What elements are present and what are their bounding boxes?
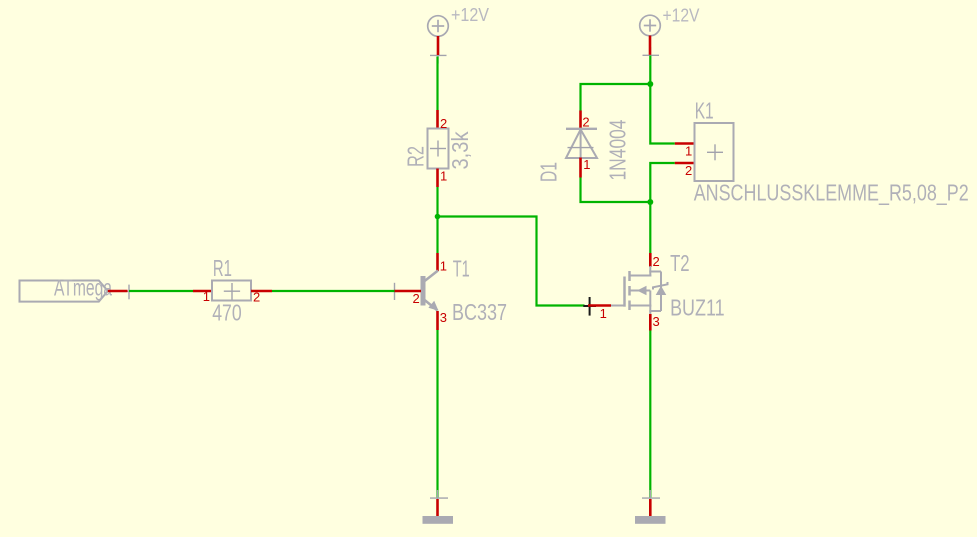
diode D1	[566, 111, 597, 178]
power +12V supply symbol P2	[640, 15, 661, 36]
svg-text:3,3k: 3,3k	[447, 131, 473, 169]
svg-text:+12V: +12V	[451, 5, 489, 25]
wire node to T2 gate	[438, 217, 585, 306]
svg-text:BC337: BC337	[452, 299, 507, 325]
MOSFET T2	[611, 253, 668, 331]
connector K1	[675, 123, 734, 181]
net label flag ATmega	[20, 281, 108, 302]
wire K1 pin2 down to drain net	[650, 163, 675, 202]
svg-text:T1: T1	[453, 256, 470, 282]
black cross at T2 gate net origin	[583, 297, 596, 316]
svg-text:R2: R2	[403, 146, 429, 167]
svg-text:+12V: +12V	[663, 6, 700, 26]
transistor T1	[395, 253, 439, 330]
svg-text:1N4004: 1N4004	[605, 119, 631, 180]
svg-text:3: 3	[653, 314, 660, 329]
svg-text:BUZ11: BUZ11	[670, 295, 725, 321]
svg-text:2: 2	[440, 116, 447, 131]
svg-text:R1: R1	[213, 255, 232, 281]
svg-text:470: 470	[212, 300, 242, 326]
svg-text:2: 2	[413, 291, 420, 306]
svg-text:2: 2	[253, 290, 260, 305]
junction node at D1 cathode branch	[647, 81, 653, 87]
pin of P1	[437, 36, 440, 55]
svg-text:1: 1	[583, 157, 590, 172]
svg-text:ATmega: ATmega	[54, 275, 112, 301]
junction node at D1 anode branch	[647, 199, 653, 205]
wire +12V down to K1 pin1	[650, 56, 675, 144]
pin-end cross at P2	[643, 47, 660, 64]
power +12V supply symbol P1	[428, 16, 449, 37]
svg-text:1: 1	[440, 169, 447, 184]
wire branch to D1 cathode	[581, 84, 651, 111]
ground GND1	[423, 490, 454, 524]
stub pin at ATmega flag	[108, 290, 128, 293]
resistor R2	[428, 110, 449, 187]
svg-text:1: 1	[203, 289, 210, 304]
wire ATmega to R1 pin1	[129, 290, 193, 292]
wire R1 to T1 base	[272, 290, 395, 292]
pin of P2	[649, 36, 652, 55]
svg-text:K1: K1	[695, 98, 714, 124]
svg-text:ANSCHLUSSKLEMME_R5,08_P2: ANSCHLUSSKLEMME_R5,08_P2	[694, 180, 969, 206]
svg-text:1: 1	[440, 258, 447, 273]
wire T1 emitter to ground	[436, 330, 438, 498]
svg-text:2: 2	[582, 114, 589, 129]
wire node down to T1 collector	[436, 217, 438, 254]
svg-text:1: 1	[685, 143, 692, 158]
wire D1 anode to drain net	[581, 178, 651, 203]
wire +12V to R2 pin2	[436, 57, 438, 111]
pin-end cross at T1 base	[386, 283, 403, 300]
gate pin of T2	[588, 304, 611, 307]
svg-text:2: 2	[653, 254, 660, 269]
wire T2 source to ground	[649, 331, 651, 499]
svg-text:1: 1	[600, 306, 607, 321]
junction node at R2/T1	[435, 214, 441, 220]
wire R2 to node	[436, 187, 438, 217]
wire drain net to T2 drain	[649, 202, 651, 253]
ground GND2	[635, 490, 666, 524]
resistor R1	[193, 281, 272, 301]
cross at ATmega net origin	[121, 285, 137, 300]
svg-text:D1: D1	[536, 162, 562, 182]
pin-end cross at P1	[430, 47, 447, 64]
svg-text:2: 2	[685, 163, 692, 178]
svg-text:T2: T2	[670, 250, 690, 276]
svg-text:3: 3	[440, 310, 447, 325]
